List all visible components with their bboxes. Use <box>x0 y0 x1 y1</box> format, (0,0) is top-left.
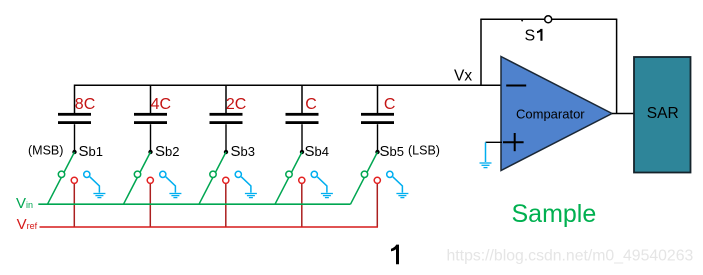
switch Sb3 ground contact <box>235 171 241 177</box>
switch Sb5 arm to Vin <box>351 152 378 204</box>
switch S1 arm arrowhead <box>520 19 524 22</box>
node pole Sb2 <box>148 150 152 154</box>
node pole Sb4 <box>300 150 304 154</box>
wire cap2 to bus <box>150 85 152 113</box>
switch Sb2 ground contact <box>160 171 166 177</box>
Vin bus wire <box>38 203 350 205</box>
svg-text:Sb1: Sb1 <box>79 143 103 160</box>
svg-text:(LSB): (LSB) <box>408 144 440 158</box>
wire cap5 bottom to switch pole <box>377 124 379 152</box>
svg-text:2C: 2C <box>226 96 246 113</box>
ground at comparator plus input <box>480 163 492 168</box>
wire cap1 bottom to switch pole <box>74 124 76 152</box>
ground at Sb5 <box>393 177 409 198</box>
switch Sb4 arm to Vin <box>275 152 302 204</box>
svg-text:C: C <box>384 96 396 113</box>
svg-text:Sample: Sample <box>512 200 597 228</box>
switch Sb3 Vref contact and wire <box>223 177 229 227</box>
switch Sb2 arm to Vin <box>124 152 151 204</box>
wire comparator output to SAR <box>612 113 634 115</box>
wire cap3 bottom to switch pole <box>225 124 227 152</box>
svg-text:Vref: Vref <box>17 216 38 233</box>
switch Sb2 Vref contact and wire <box>147 177 153 227</box>
node pole Sb1 <box>72 150 76 154</box>
svg-text:8C: 8C <box>75 96 95 113</box>
svg-text:SAR: SAR <box>647 105 679 122</box>
svg-text:Vin: Vin <box>16 195 33 212</box>
comparator plus input symbol <box>503 133 524 151</box>
capacitor C (4th) <box>286 113 319 124</box>
svg-text:Sb4: Sb4 <box>305 143 329 160</box>
op-amp comparator U1 <box>501 57 612 171</box>
feedback wire left vertical <box>480 19 482 85</box>
node pole Sb5 <box>375 150 379 154</box>
node pole Sb3 <box>224 150 228 154</box>
capacitor 8C <box>58 113 91 124</box>
ground at Sb4 <box>317 177 333 198</box>
switch Sb3 arm to Vin <box>199 152 226 204</box>
svg-text:Sb3: Sb3 <box>231 143 255 160</box>
wire cap2 bottom to switch pole <box>150 124 152 152</box>
svg-text:Sb5: Sb5 <box>380 143 404 160</box>
svg-text:S: S <box>525 28 536 45</box>
switch label S1 <box>525 28 543 45</box>
capacitor C (5th) <box>361 113 394 124</box>
switch Sb4 ground contact <box>311 171 317 177</box>
feedback wire top horizontal <box>480 18 617 20</box>
page number 1 <box>391 245 399 265</box>
wire cap4 bottom to switch pole <box>301 124 303 152</box>
Vref bus wire <box>40 226 379 228</box>
ground at Sb3 <box>241 177 257 198</box>
svg-text:4C: 4C <box>151 96 171 113</box>
switch Sb4 Vref contact and wire <box>299 177 305 227</box>
wire plus input to ground <box>486 142 503 162</box>
switch S1 contact circle <box>545 16 552 23</box>
svg-text:(MSB): (MSB) <box>28 144 63 158</box>
capacitor 2C <box>210 113 243 124</box>
ground at Sb1 <box>90 177 106 198</box>
switch Sb5 ground contact <box>387 171 393 177</box>
capacitor 4C <box>134 113 167 124</box>
wire cap3 to bus <box>225 85 227 113</box>
switch Sb1 ground contact <box>84 171 90 177</box>
comparator minus input symbol <box>506 85 526 87</box>
ground at Sb2 <box>166 177 182 198</box>
svg-text:C: C <box>305 96 317 113</box>
feedback wire right vertical <box>616 19 618 113</box>
top plate bus wire <box>75 85 502 113</box>
svg-text:https://blog.csdn.net/m0_49540: https://blog.csdn.net/m0_49540263 <box>447 248 694 265</box>
block SAR <box>634 57 691 173</box>
svg-text:Vx: Vx <box>454 68 472 85</box>
svg-text:Comparator: Comparator <box>516 107 585 122</box>
switch Sb5 Vref contact and wire <box>374 177 380 227</box>
switch Sb1 Vref contact and wire <box>71 177 77 227</box>
wire cap4 to bus <box>301 85 303 113</box>
switch Sb1 arm to Vin <box>48 152 75 204</box>
wire cap5 to bus <box>377 85 379 113</box>
svg-text:Sb2: Sb2 <box>155 143 179 160</box>
